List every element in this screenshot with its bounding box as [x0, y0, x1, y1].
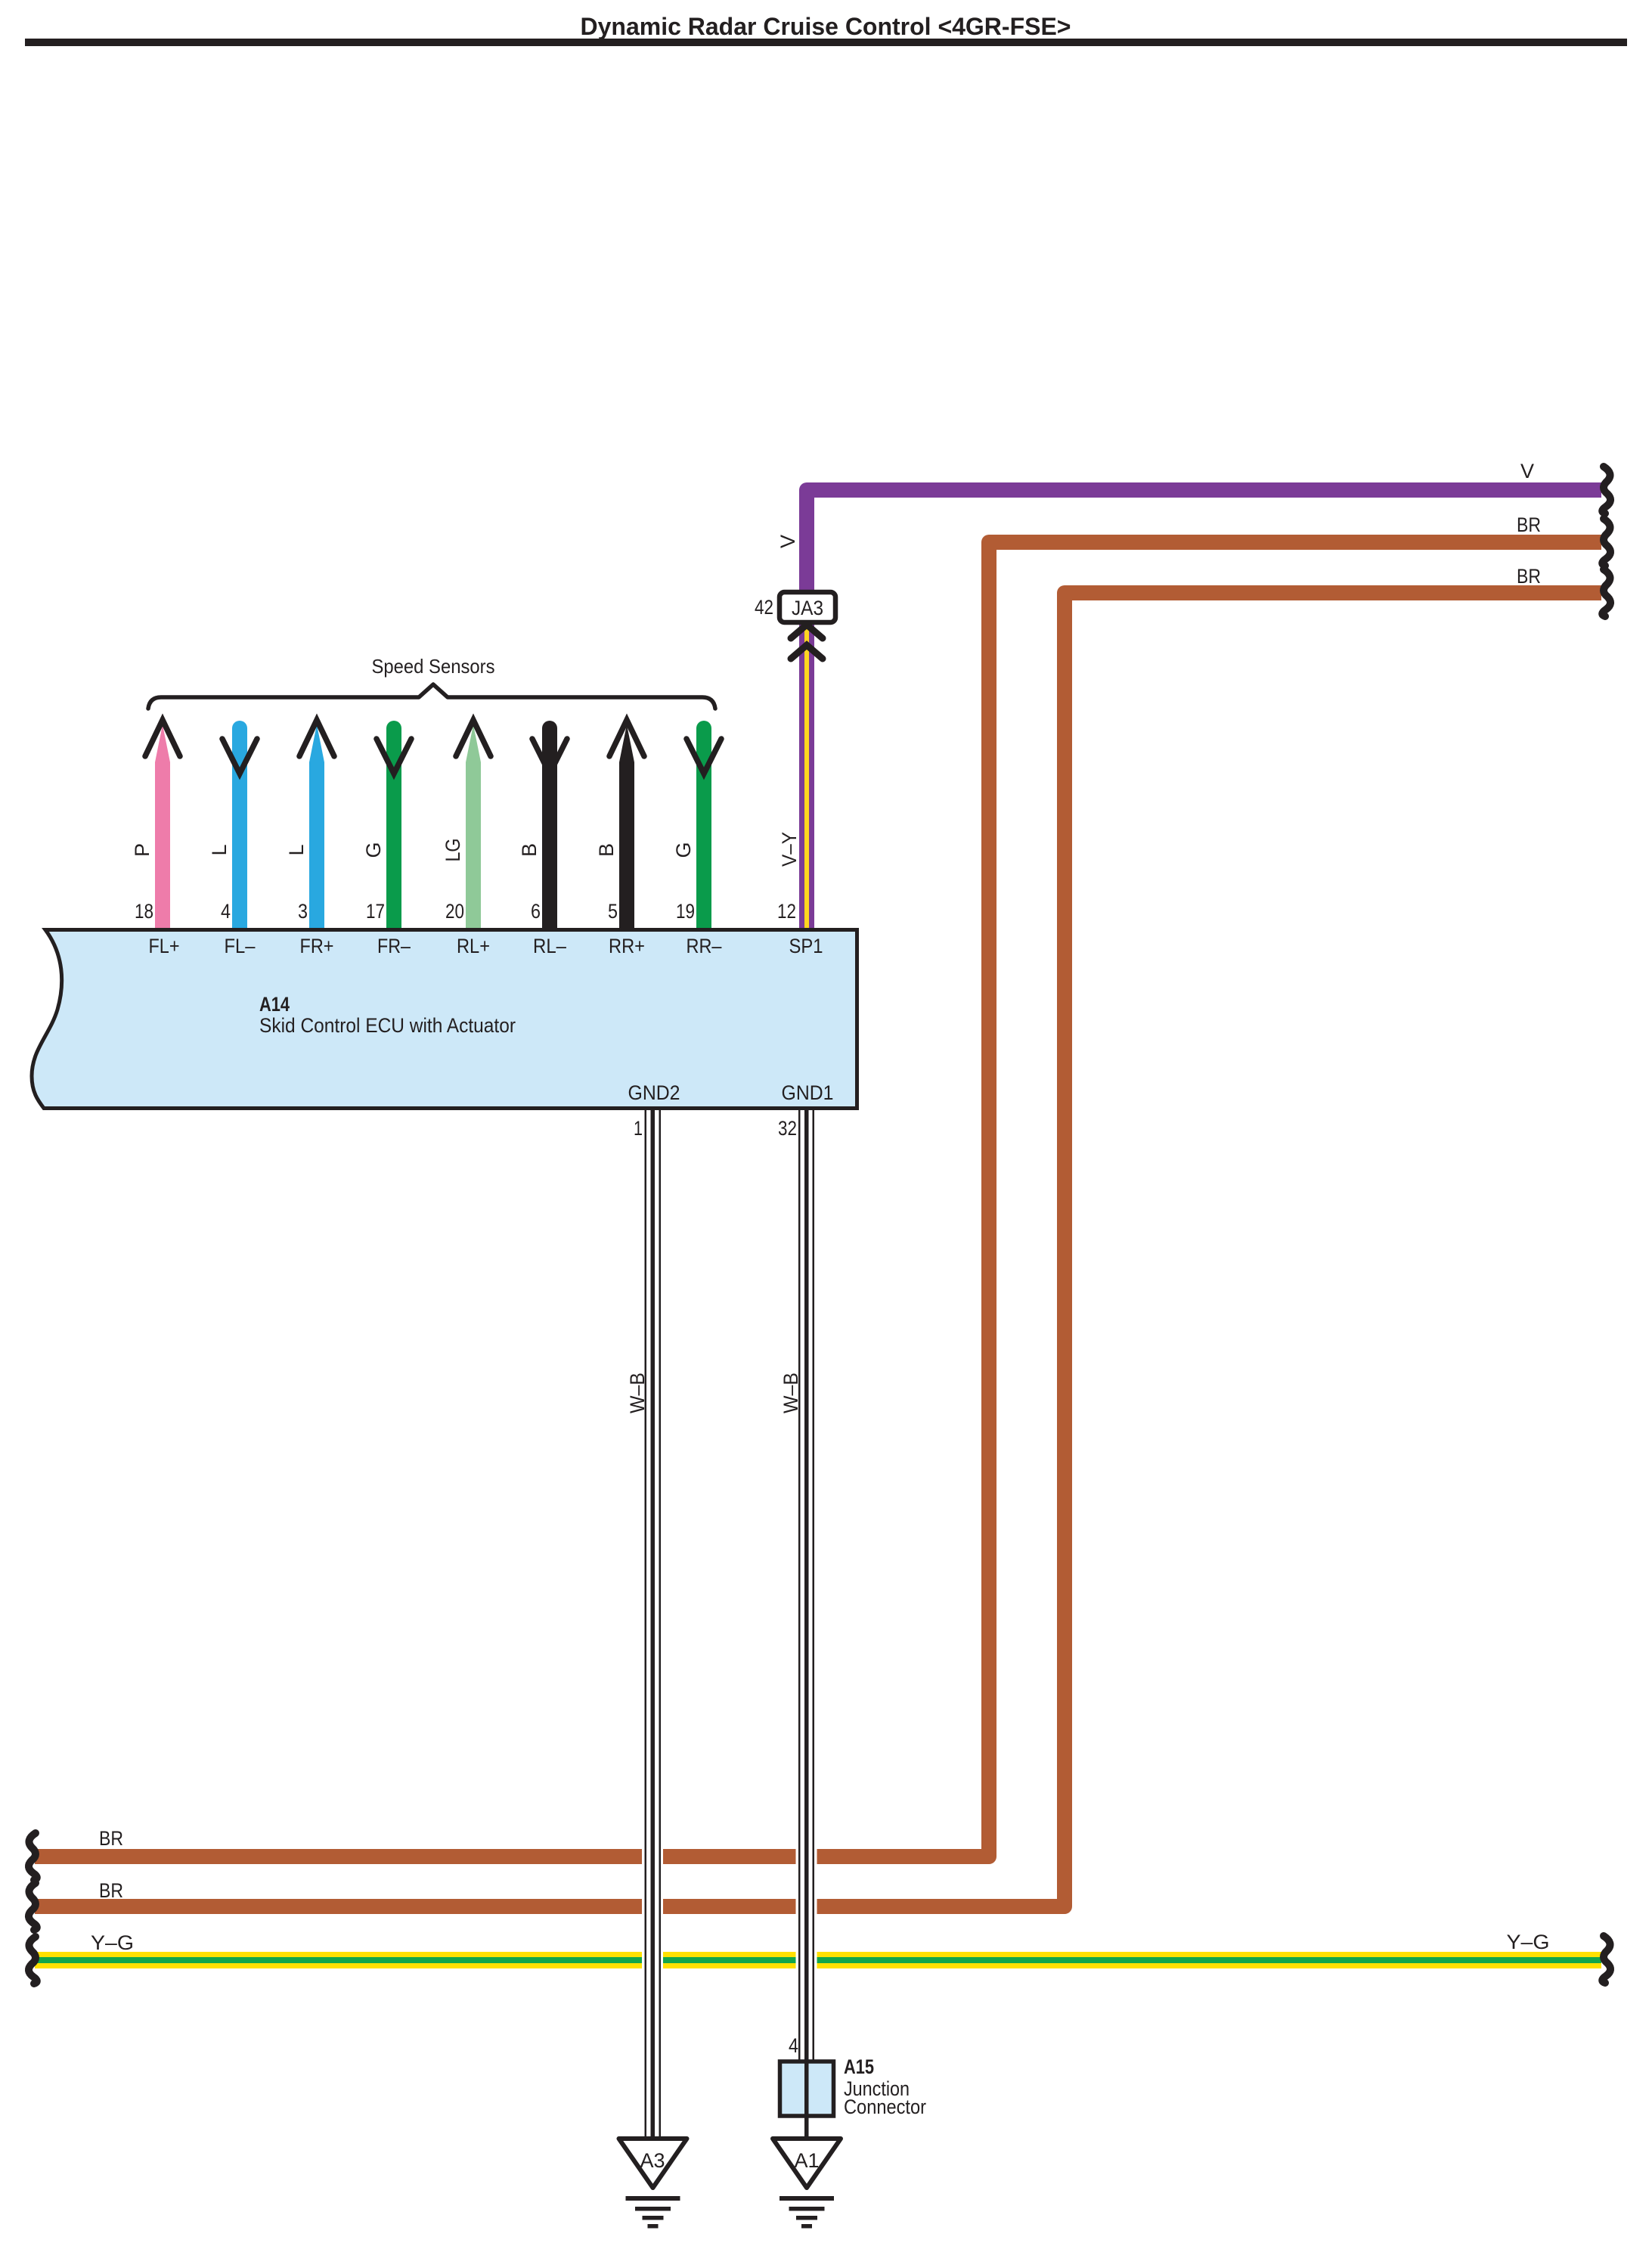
title rule: [25, 39, 1627, 46]
svg-text:19: 19: [676, 900, 695, 923]
speed sensor wire RL+ (LG, pin 20): [456, 720, 491, 932]
svg-text:RR+: RR+: [609, 935, 645, 957]
svg-text:Speed Sensors: Speed Sensors: [372, 655, 495, 678]
svg-text:JA3: JA3: [792, 597, 823, 619]
squiggle break BR2 left: [29, 1883, 37, 1930]
speed sensor wire FR- (G, pin 17): [377, 721, 411, 932]
svg-text:1: 1: [634, 1117, 643, 1140]
svg-text:GND2: GND2: [628, 1081, 680, 1104]
svg-text:12: 12: [777, 900, 796, 923]
svg-text:BR: BR: [1517, 565, 1541, 588]
svg-text:P: P: [131, 843, 153, 857]
svg-text:W–B: W–B: [780, 1373, 802, 1413]
speed sensor wire RR+ (B, pin 5): [609, 720, 644, 932]
wire V-Y vertical (JA3 to SP1): [799, 622, 814, 932]
svg-text:FL–: FL–: [225, 935, 256, 957]
svg-text:V: V: [776, 535, 799, 548]
wire V horizontal from JA3 to right edge: [807, 490, 1601, 597]
wire W-B (GND1 to A15): [798, 1109, 814, 2061]
speed sensor wire FR+ (L, pin 3): [299, 720, 334, 932]
ground A3: [619, 2139, 687, 2229]
svg-text:FL+: FL+: [149, 935, 180, 957]
svg-text:Dynamic Radar Cruise Control <: Dynamic Radar Cruise Control <4GR-FSE>: [581, 13, 1071, 40]
junction connector A15: [780, 2061, 834, 2116]
speed sensor wire FL- (L, pin 4): [222, 721, 257, 932]
svg-text:Connector: Connector: [844, 2096, 926, 2118]
svg-text:BR: BR: [99, 1827, 123, 1850]
svg-text:A1: A1: [794, 2149, 819, 2172]
svg-text:V–Y: V–Y: [778, 832, 801, 867]
connector JA3: [780, 592, 835, 622]
svg-text:3: 3: [298, 900, 308, 923]
speed sensor wire RR- (G, pin 19): [687, 721, 721, 932]
svg-text:BR: BR: [1517, 513, 1541, 536]
svg-text:20: 20: [445, 900, 464, 923]
svg-text:32: 32: [778, 1117, 797, 1140]
svg-text:FR–: FR–: [377, 935, 411, 957]
svg-text:42: 42: [755, 596, 773, 619]
double chevron under JA3: [791, 625, 823, 659]
svg-text:L: L: [285, 844, 308, 855]
svg-text:A15: A15: [844, 2055, 874, 2078]
svg-text:V: V: [1520, 460, 1534, 482]
svg-text:G: G: [362, 842, 385, 858]
speed sensor wire RL- (B, pin 6): [532, 721, 567, 932]
wire W-B (GND2 to A3 ground): [645, 1109, 662, 2139]
svg-text:Y–G: Y–G: [91, 1931, 134, 1954]
wire Y-G horizontal: [35, 1952, 1601, 1968]
wire BR upper elbow (right edge to vertical to bottom left): [35, 542, 1601, 1857]
svg-text:B: B: [595, 843, 618, 857]
title: [581, 13, 1071, 40]
white gaps where W-B wires cross horizontal wires: [642, 1847, 817, 1970]
svg-text:18: 18: [135, 900, 153, 923]
svg-text:RL+: RL+: [457, 935, 490, 957]
svg-text:GND1: GND1: [782, 1081, 834, 1104]
svg-text:BR: BR: [99, 1879, 123, 1902]
svg-text:W–B: W–B: [626, 1373, 649, 1413]
svg-text:Skid Control ECU with Actuator: Skid Control ECU with Actuator: [259, 1014, 516, 1037]
squiggle break V right: [1602, 467, 1610, 513]
svg-text:SP1: SP1: [789, 935, 823, 957]
ECU box A14: [32, 930, 857, 1109]
speed sensor wire FL+ (P, pin 18): [145, 720, 180, 932]
svg-text:4: 4: [221, 900, 231, 923]
svg-text:17: 17: [366, 900, 385, 923]
svg-text:4: 4: [789, 2034, 798, 2057]
svg-text:G: G: [672, 842, 695, 858]
squiggle break Y-G right: [1602, 1936, 1610, 1983]
svg-text:Y–G: Y–G: [1507, 1931, 1550, 1953]
svg-text:LG: LG: [442, 839, 464, 862]
squiggle break BR1 left: [29, 1833, 37, 1880]
ground A1: [773, 2139, 841, 2229]
wire BR lower elbow (right edge to vertical to bottom left): [35, 593, 1601, 1906]
svg-text:5: 5: [608, 900, 618, 923]
brace over speed sensors: [148, 684, 715, 709]
svg-text:A14: A14: [259, 993, 290, 1016]
squiggle break Y-G left: [29, 1937, 37, 1984]
wire A15 to A1 ground: [804, 2116, 809, 2139]
squiggle break BR2 right: [1602, 569, 1610, 616]
svg-text:RL–: RL–: [533, 935, 566, 957]
svg-text:FR+: FR+: [300, 935, 334, 957]
svg-text:A3: A3: [640, 2149, 665, 2172]
svg-text:L: L: [208, 844, 231, 855]
svg-text:RR–: RR–: [687, 935, 722, 957]
svg-text:B: B: [518, 843, 541, 857]
svg-text:6: 6: [531, 900, 541, 923]
squiggle break BR1 right: [1602, 519, 1610, 566]
